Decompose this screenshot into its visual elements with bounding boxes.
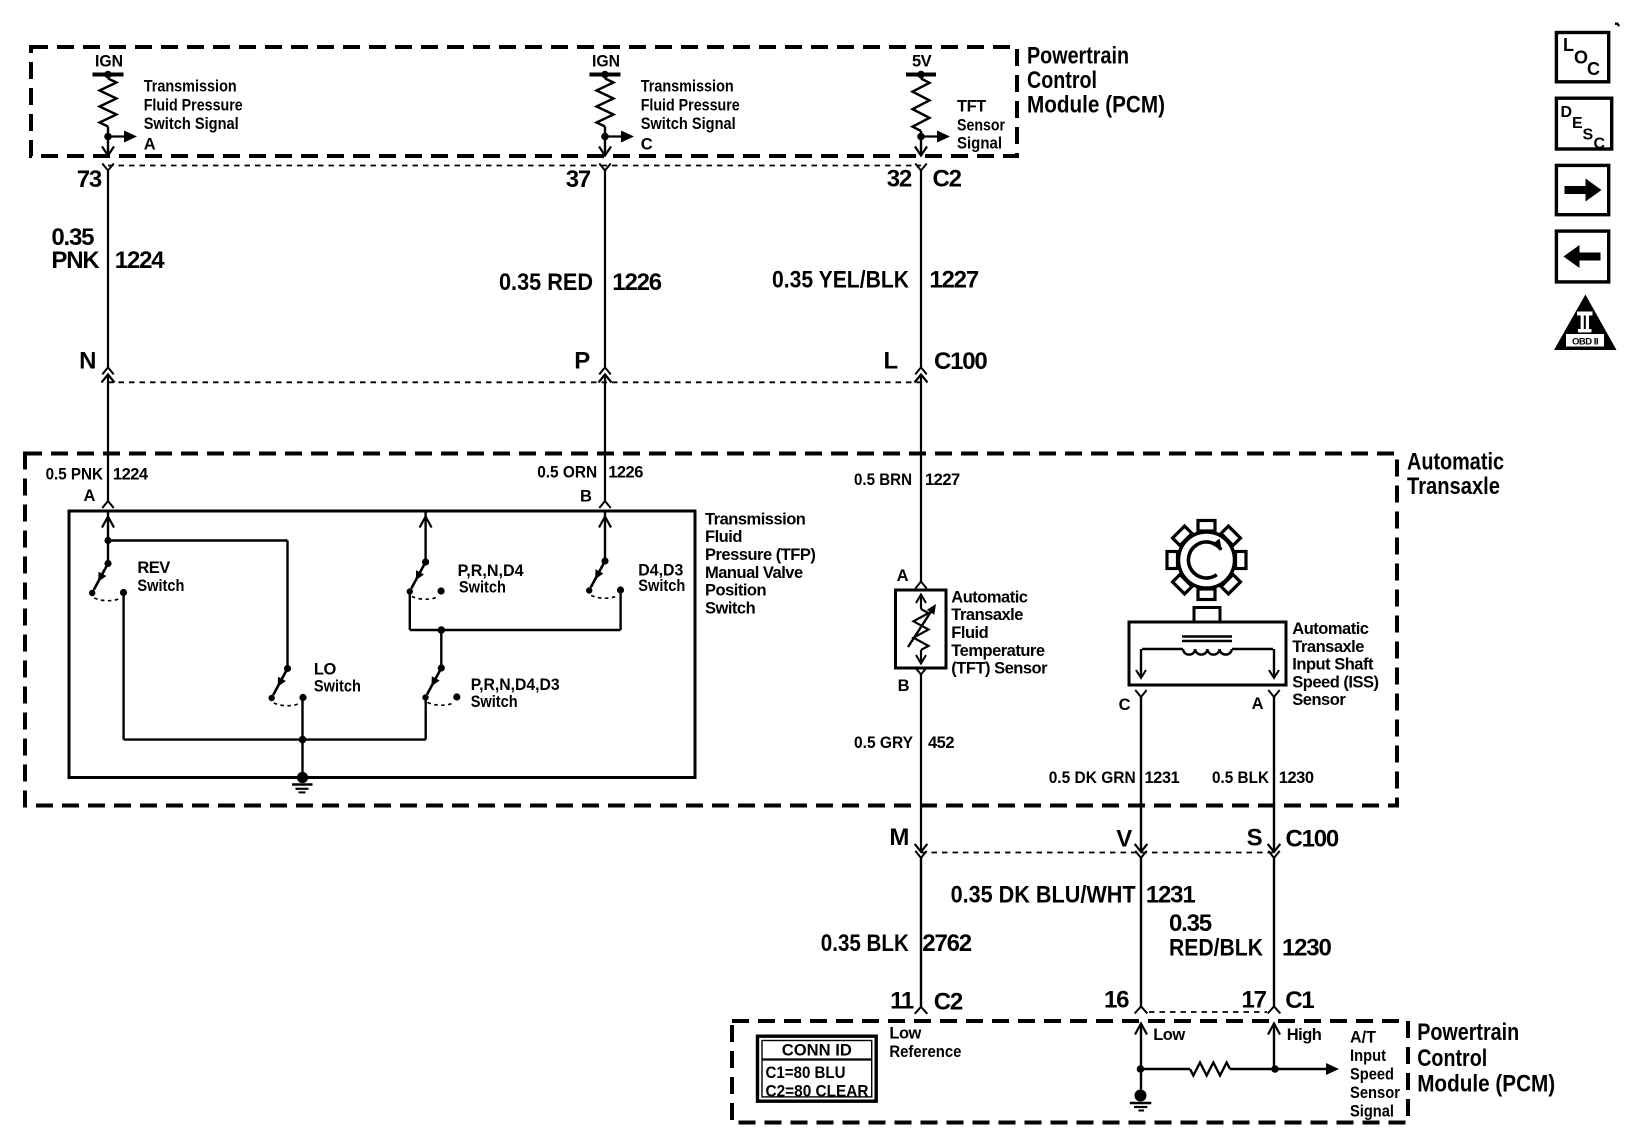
label Low Reference [889,1025,961,1062]
svg-text:0.5 BLK: 0.5 BLK [1212,769,1269,787]
label TFT Sensor Signal [957,98,1005,153]
ISS sensor top tab [1194,608,1220,623]
svg-text:452: 452 [928,734,954,752]
svg-text:S: S [1583,127,1594,144]
svg-text:0.35 RED: 0.35 RED [499,269,593,296]
TFP manual valve position switch box [69,511,695,778]
svg-text:Module (PCM): Module (PCM) [1417,1071,1555,1098]
svg-text:C100: C100 [934,348,987,375]
Automatic Transaxle label [1407,449,1504,501]
PCM top module box [31,47,1017,156]
wire label 0.35 DK BLU/WHT 1231 [951,881,1196,908]
wire 0.35 DK BLU/WHT 1231 [1140,858,1142,1007]
svg-text:CONN ID: CONN ID [782,1042,852,1060]
wire 0.5 ORN into transaxle [604,375,606,502]
wire label 0.5 ORN 1226 [537,464,643,482]
connector A chevron TFT [915,582,926,589]
TFT sensor box [896,590,947,668]
svg-text:C1=80 BLU: C1=80 BLU [766,1064,846,1082]
wire label 0.35 RED 1226 [499,269,662,296]
connector A chevron ISS [1268,690,1279,697]
svg-text:P,R,N,D4: P,R,N,D4 [458,562,525,580]
svg-text:Automatic: Automatic [1292,620,1368,638]
IGN feed bar col x=605 [590,53,621,79]
svg-text:Transaxle: Transaxle [1407,473,1500,500]
wire down arrow into connector col x=605 [599,147,611,156]
TFP switch label [705,510,815,617]
svg-text:IGN: IGN [95,53,123,71]
svg-text:Fluid: Fluid [951,624,988,642]
svg-text:0.35 DK BLU/WHT: 0.35 DK BLU/WHT [951,881,1136,908]
icon back arrow box [1556,231,1608,282]
D4,D3 switch [586,557,624,598]
svg-text:Speed (ISS): Speed (ISS) [1292,673,1378,691]
wire to LO switch [108,539,288,541]
LO switch [269,665,307,706]
svg-text:1230: 1230 [1279,769,1314,787]
svg-text:1231: 1231 [1145,769,1180,787]
svg-text:Temperature: Temperature [951,642,1045,660]
PCM bottom module label [1417,1019,1555,1097]
svg-text:Fluid: Fluid [705,528,742,546]
svg-text:C: C [1587,59,1600,79]
ground ISS low reference [1130,1090,1152,1111]
wire label 0.5 DK GRN 1231 [1049,769,1180,787]
wire 0.5 DK GRN 1231 [1140,697,1142,851]
svg-text:73: 73 [77,166,102,193]
svg-text:Powertrain: Powertrain [1027,43,1129,70]
wire 1226 PCM to C100 [604,171,606,368]
svg-text:Switch: Switch [471,693,518,711]
wire D4,D3 contact down [619,591,621,630]
label D4,D3 Switch [638,562,685,596]
ISS sensor box [1129,622,1286,685]
svg-text:Pressure (TFP): Pressure (TFP) [705,546,815,564]
CONN ID table [758,1036,877,1101]
wire 1227 PCM to C100 [920,171,922,368]
svg-text:Control: Control [1027,67,1097,94]
connector pin V C100 bottom [1135,844,1148,858]
svg-text:A: A [144,136,156,154]
svg-text:0.35 YEL/BLK: 0.35 YEL/BLK [772,267,910,294]
svg-text:0.5 DK GRN: 0.5 DK GRN [1049,769,1136,787]
signal arrow A/T input speed [1274,1063,1339,1075]
wire 0.5 BRN to TFT sensor [920,375,922,582]
svg-text:O: O [1574,48,1588,68]
wire 0.5 GRY 452 [920,675,922,852]
svg-text:5V: 5V [912,53,932,71]
svg-text:C2: C2 [933,166,962,193]
svg-text:Automatic: Automatic [951,588,1027,606]
svg-text:32: 32 [887,166,912,193]
svg-text:0.35 BLK: 0.35 BLK [821,930,910,957]
TFT sensor label [951,588,1048,677]
P,R,N,D4 switch [407,558,445,599]
svg-text:C2: C2 [934,989,963,1016]
REV switch [89,560,127,601]
wire label 0.35 BLK 2762 [821,930,972,957]
svg-text:Switch: Switch [459,578,506,596]
svg-text:Switch Signal: Switch Signal [144,115,239,133]
connector C2 dotted line [108,165,921,167]
label P,R,N,D4 Switch [458,562,525,596]
svg-text:Fluid Pressure: Fluid Pressure [641,96,740,114]
resistor R1 (ignition pull-up) [100,75,117,155]
wire D4,D3 feed [599,511,611,561]
svg-text:Input Shaft: Input Shaft [1292,656,1374,674]
svg-text:0.35: 0.35 [1169,910,1212,937]
label Transmission Fluid Pressure Switch Signal A [144,78,243,154]
svg-text:C100: C100 [1286,826,1339,853]
svg-text:A: A [897,567,909,585]
svg-text:Switch: Switch [314,677,361,695]
node junction / signal tap arrow col x=605 [601,131,634,143]
connector B chevron TFT [915,668,926,675]
svg-text:High: High [1287,1026,1322,1044]
label REV Switch [137,559,184,595]
svg-text:A: A [83,487,95,505]
svg-text:17: 17 [1242,987,1267,1014]
svg-text:L: L [884,348,898,375]
svg-text:Input: Input [1350,1047,1386,1065]
svg-text:1231: 1231 [1146,881,1195,908]
ISS pickup coil [1136,637,1279,679]
ISS sensor label [1292,620,1378,709]
svg-text:P: P [574,348,590,375]
node junction / signal tap arrow col x=108 [104,131,137,143]
svg-text:Sensor: Sensor [1350,1084,1401,1102]
wire label 0.5 BRN 1227 [854,471,960,489]
label A/T Input Speed Sensor Signal [1350,1029,1401,1121]
svg-text:Switch: Switch [137,577,184,595]
svg-text:Low: Low [1153,1026,1185,1044]
wire REV contact down [122,592,124,740]
icon forward arrow box [1556,165,1608,214]
wire 0.35 RED/BLK 1230 [1273,858,1275,1007]
wire PRND4D3 tip down [425,698,427,740]
svg-text:Switch: Switch [638,577,685,595]
5V feed bar [906,53,936,79]
svg-text:B: B [580,487,592,505]
connector C chevron ISS [1135,690,1146,697]
wire LO contact down to ground [299,697,307,777]
svg-text:A: A [1252,695,1264,713]
label LO Switch [314,661,361,696]
svg-text:A/T: A/T [1350,1029,1376,1047]
svg-text:S: S [1247,825,1263,852]
svg-text:11: 11 [890,988,914,1015]
connector pin 32 C2 (female Y) [915,164,926,171]
connector C1 dashed line [1149,1011,1267,1013]
svg-text:C: C [1594,136,1606,153]
icon OBD II triangle [1554,295,1617,351]
connector C100 dashed line (bottom) [921,852,1274,854]
P,R,N,D4,D3 switch [422,664,460,705]
svg-text:Position: Position [705,582,767,600]
svg-text:0.5 ORN: 0.5 ORN [537,464,597,482]
wire label 0.5 BLK 1230 [1212,769,1314,787]
wire label 0.5 PNK 1224 [46,466,149,484]
svg-text:Speed: Speed [1350,1066,1394,1084]
resistor R2 (ignition pull-up) [597,75,614,155]
svg-text:1227: 1227 [929,267,978,294]
svg-text:0.5 BRN: 0.5 BRN [854,471,912,489]
PCM top module label [1027,43,1165,119]
svg-text:Signal: Signal [957,135,1002,153]
ISS gear icon [1167,521,1246,600]
svg-text:C: C [1119,696,1131,714]
wire mid bus [410,626,621,634]
svg-text:M: M [889,824,908,851]
connector pin S C100 bottom [1268,844,1281,858]
svg-text:Module (PCM): Module (PCM) [1027,92,1165,119]
svg-text:IGN: IGN [592,53,620,71]
wire 0.35 BLK 2762 [920,858,922,1007]
svg-text:Transmission: Transmission [641,78,734,96]
svg-text:C2=80 CLEAR: C2=80 CLEAR [766,1083,869,1101]
connector pin 17 C1 [1268,1006,1281,1013]
svg-text:L: L [1563,35,1574,55]
wire P,R,N,D4,D3 feed [440,630,442,668]
wire pin16 internal [1135,1024,1147,1090]
wire REV feed [102,511,114,564]
svg-text:1226: 1226 [612,269,661,296]
svg-text:37: 37 [566,166,591,193]
svg-text:Sensor: Sensor [957,117,1005,135]
svg-text:1224: 1224 [115,247,165,274]
wire pin17 internal [1268,1024,1280,1073]
connector pin N C100 [102,367,115,382]
svg-text:Transmission: Transmission [144,78,237,96]
svg-text:1224: 1224 [113,466,149,484]
connector pin 73 C2 (female Y) [102,164,113,171]
wire down arrow into connector 5V col [915,147,927,156]
svg-text:C: C [641,136,653,154]
wire label 0.5 GRY 452 [854,734,954,752]
connector pin M C100 bottom [915,844,928,858]
svg-text:(TFT) Sensor: (TFT) Sensor [951,660,1048,678]
label Transmission Fluid Pressure Switch Signal C [641,78,740,154]
svg-text:Low: Low [889,1025,921,1043]
svg-text:Sensor: Sensor [1292,691,1346,709]
svg-text:Switch Signal: Switch Signal [641,115,736,133]
wire bottom bus [124,738,426,740]
TFT thermistor symbol [908,595,936,664]
svg-text:Signal: Signal [1350,1103,1394,1121]
svg-text:P,R,N,D4,D3: P,R,N,D4,D3 [471,676,560,694]
stray print mark [1615,23,1619,26]
wire 0.5 PNK into transaxle [107,375,109,502]
connector pin 37 C2 (female Y) [599,164,610,171]
wire 0.5 BLK 1230 [1273,697,1275,851]
svg-text:Reference: Reference [889,1043,961,1061]
connector pin L C100 [915,367,928,382]
node junction / signal tap arrow 5V [917,131,950,143]
svg-text:E: E [1572,115,1583,132]
svg-text:Transaxle: Transaxle [1292,638,1364,656]
resistor R3 (TFT 5V pull-up) [913,75,930,155]
IGN feed bar col x=108 [93,53,124,79]
svg-text:0.5 GRY: 0.5 GRY [854,734,913,752]
Automatic Transaxle dashed box [25,454,1397,806]
connector C100 dashed line (top) [108,381,921,383]
svg-text:1230: 1230 [1282,935,1331,962]
svg-text:N: N [79,348,95,375]
svg-text:1227: 1227 [925,471,960,489]
wire P,R,N,D4 feed [420,511,432,562]
svg-text:Powertrain: Powertrain [1417,1019,1519,1046]
connector A chevron TFP [102,501,113,508]
svg-text:Automatic: Automatic [1407,449,1504,476]
svg-text:C1: C1 [1285,987,1314,1014]
PCM bottom module box [732,1021,1408,1123]
svg-text:Manual Valve: Manual Valve [705,564,803,582]
svg-text:OBD II: OBD II [1572,337,1598,348]
wire label 0.35 YEL/BLK 1227 [772,267,979,294]
label P,R,N,D4,D3 Switch [471,676,560,711]
connector pin 11 C2 [915,1007,928,1014]
svg-text:Transmission: Transmission [705,510,806,528]
svg-text:V: V [1116,826,1132,853]
svg-text:B: B [898,677,910,695]
svg-text:PNK: PNK [51,247,100,274]
wire 1224 PCM to C100 [107,171,109,368]
wire down arrow into connector col x=108 [102,147,114,156]
wire LO feed [286,541,288,669]
svg-text:RED/BLK: RED/BLK [1169,935,1264,962]
connector pin P C100 [599,367,612,382]
svg-text:1226: 1226 [608,464,643,482]
svg-text:Transaxle: Transaxle [951,606,1023,624]
node REV junction [104,537,111,544]
icon LOC box [1556,33,1608,82]
svg-text:LO: LO [314,661,337,679]
svg-text:Fluid Pressure: Fluid Pressure [144,96,243,114]
svg-text:REV: REV [137,559,170,577]
wire label 0.35 RED/BLK 1230 [1169,910,1331,962]
wire PRND4 tip down [409,591,411,630]
svg-text:2762: 2762 [922,930,971,957]
resistor R4 (ISS input) [1141,1063,1275,1076]
svg-text:D: D [1561,104,1572,121]
svg-text:Switch: Switch [705,599,756,617]
svg-text:TFT: TFT [957,98,986,116]
connector B chevron TFP [599,501,610,508]
svg-text:16: 16 [1104,987,1129,1014]
icon DESC box [1556,98,1611,152]
ground TFP switch [292,772,313,793]
svg-text:0.5 PNK: 0.5 PNK [46,466,103,484]
connector pin 16 C1 [1135,1006,1148,1013]
wire label 0.35 PNK 1224 [51,224,165,274]
svg-text:Control: Control [1417,1045,1487,1072]
